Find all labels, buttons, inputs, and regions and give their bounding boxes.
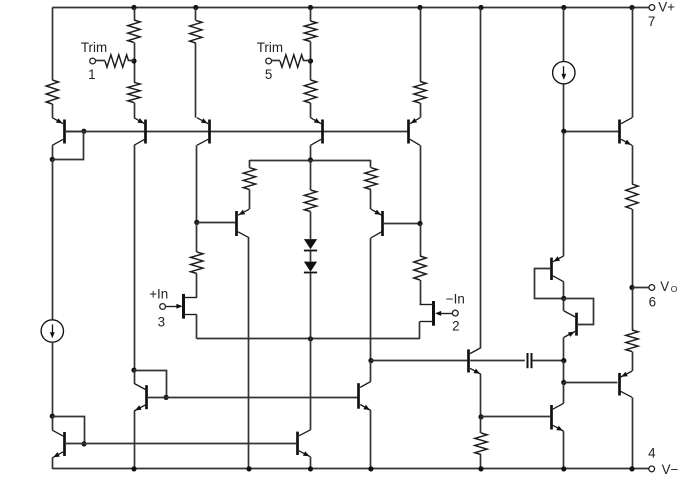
transistor Q15	[134, 383, 147, 411]
node C1 right	[561, 358, 566, 363]
wire Q11 emitter down	[480, 374, 482, 417]
label pin number 2	[452, 319, 459, 334]
terminal pin 7 V+	[649, 5, 655, 11]
node trim1 tap	[131, 58, 136, 63]
wire Q4 collector down	[310, 145, 312, 160]
wire x310 to R14	[310, 160, 312, 190]
svg-text:7: 7	[648, 14, 655, 29]
resistor R10	[191, 252, 203, 274]
resistor R16	[626, 330, 638, 352]
wire Q7 collector to rail	[248, 238, 250, 469]
current source I2	[553, 61, 575, 83]
wire base rail right section	[564, 131, 619, 133]
wire R13 to Q8 emitter	[370, 190, 372, 210]
wire R5 to Q3	[195, 43, 197, 118]
resistor R13 top bend	[370, 160, 372, 168]
node top rail x310	[308, 5, 313, 10]
wire trim1 lead	[95, 60, 105, 62]
wire R4 to Q2	[134, 103, 136, 118]
wire Q5 collector down	[420, 145, 422, 223]
resistor R17	[475, 433, 487, 455]
wire trim1 to tap	[129, 60, 134, 62]
resistor R12 top bend	[249, 160, 251, 168]
transistor Q12	[620, 371, 633, 397]
node V- rail x563	[561, 466, 566, 471]
svg-text:2: 2	[452, 319, 459, 334]
wire x134 top	[134, 8, 136, 21]
wire D2 down	[310, 273, 312, 339]
node trim5 tap	[308, 58, 313, 63]
wire node to R17	[480, 417, 482, 433]
transistor Q6	[620, 118, 633, 146]
resistor R4	[128, 82, 140, 102]
wire C1 to x563	[532, 360, 564, 362]
transistor Q10	[564, 311, 577, 338]
wire node to R10	[196, 222, 198, 252]
resistor R2	[128, 20, 140, 43]
label V-	[662, 462, 679, 477]
transistor Q4	[311, 118, 323, 146]
wire Q13 collector up	[563, 383, 565, 404]
wire R10 to J1 drain	[196, 274, 198, 298]
node top rail x632	[629, 5, 634, 10]
transistor Q9	[552, 256, 564, 282]
wire Q15 collector	[134, 370, 136, 383]
transistor Q8	[371, 209, 383, 238]
svg-text:−In: −In	[446, 292, 465, 307]
node V- rail x481	[478, 466, 483, 471]
terminal pin 2 -In	[452, 310, 458, 316]
wire Q14 collector	[52, 416, 54, 430]
wire Q12 collector to rail	[632, 397, 634, 469]
node Q7 base node	[194, 220, 199, 225]
wire Vo lead	[632, 287, 649, 289]
resistor R14	[304, 190, 316, 212]
label pin number 5	[265, 67, 272, 82]
wire J2 source down	[419, 322, 421, 339]
node Q12 base node	[561, 380, 566, 385]
node Q1 collector	[50, 157, 55, 162]
wire R11 to J2 drain	[420, 280, 422, 305]
node bias chain mid	[561, 296, 566, 301]
svg-text:Trim: Trim	[81, 40, 107, 55]
resistor R7	[280, 55, 304, 67]
wire Q14-Q16 base bus	[66, 443, 296, 445]
resistor R1	[46, 80, 58, 104]
transistor Q17	[359, 381, 371, 410]
svg-text:V: V	[660, 279, 669, 294]
terminal pin 4 V-	[649, 466, 655, 472]
wire Q13 emitter to rail	[563, 431, 565, 469]
wire x563 to Q9	[563, 131, 565, 256]
svg-text:O: O	[671, 284, 678, 294]
terminal pin 1 Trim	[90, 58, 96, 64]
wire Q17 emitter to rail	[370, 411, 372, 469]
transistor Q5	[409, 118, 421, 146]
wire J1 source down	[196, 314, 198, 338]
label Trim (pin5)	[257, 40, 283, 55]
label -In	[446, 292, 465, 307]
resistor R3	[105, 55, 129, 67]
wire left column top	[52, 8, 54, 81]
label Vo	[660, 279, 678, 294]
wire R9 to Q5	[420, 103, 422, 118]
wire Vo to R16	[632, 288, 634, 331]
wire Q2 collector down	[134, 145, 136, 370]
node top rail x420	[417, 5, 422, 10]
node V- rail x249	[246, 466, 251, 471]
wire Q15-Q17 base bus	[148, 397, 358, 399]
wire R17 to rail	[480, 455, 482, 469]
wire Q16 emitter to rail	[310, 457, 312, 469]
wire x196 top	[195, 8, 197, 21]
label Trim (pin1)	[81, 40, 107, 55]
wire x310 top	[310, 8, 312, 22]
transistor Q13	[552, 403, 564, 431]
wire Q3 collector down	[196, 145, 198, 222]
svg-text:4: 4	[648, 446, 656, 461]
resistor R5	[190, 20, 202, 43]
svg-text:1: 1	[88, 67, 95, 82]
wire R12 to Q7 emitter	[249, 190, 251, 210]
wire R2 to R4	[134, 43, 136, 83]
resistor R12	[243, 168, 255, 190]
wire D1 to D2	[310, 251, 312, 262]
wire R14 to D1	[310, 212, 312, 240]
node Q11 emitter	[478, 414, 483, 419]
node second stage left	[308, 157, 313, 162]
diode D1	[304, 239, 317, 250]
resistor R6	[304, 21, 316, 42]
node base rail tap	[561, 129, 566, 134]
wire Q15 emitter to rail	[134, 411, 136, 469]
current source I1	[41, 320, 63, 342]
svg-text:+In: +In	[149, 286, 168, 301]
wire Q8 collector down	[370, 238, 372, 361]
node sources junction	[308, 336, 313, 341]
transistor Q7	[237, 209, 250, 238]
wire Q8 base	[384, 223, 420, 225]
wire R6 to R8	[310, 42, 312, 81]
wire Q12 base	[564, 382, 618, 384]
label pin number 7	[648, 14, 655, 29]
wire Q14 diode jog	[52, 417, 86, 447]
transistor Q16	[298, 430, 311, 457]
svg-text:V+: V+	[658, 0, 675, 14]
wire Q10 collector up	[563, 298, 565, 311]
wire x632 top	[632, 8, 634, 118]
svg-text:3: 3	[158, 315, 165, 330]
node top rail x196	[193, 5, 198, 10]
wire Q8 collector to Q17	[370, 361, 372, 382]
wire I2 down	[563, 84, 565, 131]
wire R8 to Q4	[310, 103, 312, 118]
node V- rail x310	[308, 466, 313, 471]
terminal pin 3 +In	[160, 304, 166, 310]
wire V+ rail	[52, 7, 649, 9]
wire x481 long	[480, 8, 482, 348]
node V- rail x134	[131, 466, 136, 471]
wire Q7 base	[197, 222, 236, 224]
transistor Q14	[52, 430, 64, 458]
transistor Q2	[134, 118, 146, 146]
label pin number 6	[649, 295, 656, 310]
node top rail x134	[131, 5, 136, 10]
node Q11 base tap	[368, 358, 373, 363]
wire source coupling	[197, 338, 420, 340]
wire Q1 collector down	[52, 145, 54, 159]
resistor R11	[414, 256, 426, 280]
wire Q1 base jog	[52, 129, 86, 160]
svg-text:Trim: Trim	[257, 40, 283, 55]
label V+	[658, 0, 675, 14]
wire Q9 collector down	[563, 282, 565, 299]
label +In	[149, 286, 168, 301]
wire Q10 emitter down	[563, 337, 565, 360]
wire Q6 emitter to R15	[632, 145, 634, 184]
svg-text:6: 6	[649, 295, 656, 310]
node I1 bottom	[50, 414, 55, 419]
wire y160 bus	[250, 160, 372, 162]
terminal pin 6 Vo	[649, 285, 655, 291]
diode D2	[304, 262, 317, 273]
resistor R15	[626, 184, 638, 209]
wire Q9 base loop	[535, 269, 564, 299]
jfet J1 (+In)	[165, 294, 197, 319]
node Vo	[629, 285, 634, 290]
wire Q11 base left	[371, 360, 468, 362]
wire R1 to Q1 emitter	[52, 104, 54, 118]
wire Q11 base right	[470, 360, 525, 362]
wire Q15 diode jog	[134, 371, 169, 401]
wire x310 to Q16 collector	[310, 339, 312, 430]
transistor Q1	[52, 118, 64, 146]
label pin number 3	[158, 315, 165, 330]
svg-text:5: 5	[265, 67, 272, 82]
label pin number 4	[648, 446, 656, 461]
transistor Q3	[197, 118, 210, 146]
node Q5 collector	[417, 221, 422, 226]
wire R16 to Q12 emitter	[632, 352, 634, 372]
wire x563 top	[563, 8, 565, 62]
wire x563 mid	[563, 361, 565, 383]
wire left column middle	[52, 159, 54, 319]
wire I1 to node	[52, 342, 54, 416]
wire trim5 to tap	[304, 60, 311, 62]
resistor R8	[304, 80, 316, 103]
node V- rail x371	[368, 466, 373, 471]
resistor R9	[414, 82, 426, 104]
wire Q14 emitter to rail	[52, 458, 54, 469]
wire x420 top	[420, 8, 422, 82]
wire V- rail	[52, 468, 649, 470]
wire Q13 base	[481, 416, 550, 418]
node top rail x481	[478, 5, 483, 10]
terminal pin 5 Trim	[266, 58, 272, 64]
node Q15 tap	[131, 368, 136, 373]
jfet J2 (-In)	[420, 301, 452, 326]
transistor Q11	[469, 348, 482, 375]
wire trim5 lead	[271, 60, 280, 62]
node top rail x563	[561, 5, 566, 10]
wire Q10 base loop	[564, 299, 594, 325]
wire node to R11	[420, 224, 422, 257]
node V- rail x632	[629, 466, 634, 471]
svg-text:V−: V−	[662, 462, 679, 477]
label pin number 1	[88, 67, 95, 82]
wire base rail	[66, 131, 408, 133]
resistor R13	[365, 168, 377, 190]
capacitor C1	[528, 353, 532, 368]
wire R15 to Vo	[632, 209, 634, 288]
